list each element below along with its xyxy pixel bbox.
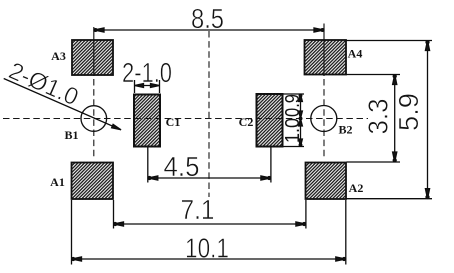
svg-text:C1: C1	[166, 115, 181, 129]
dimension 0.9/1.0 line	[299, 94, 303, 147]
dimension 7.1 extension lines	[114, 200, 306, 229]
pad C2	[257, 94, 283, 147]
svg-text:5.9: 5.9	[393, 93, 424, 131]
svg-text:A1: A1	[50, 175, 65, 189]
dimension 4.5 extension lines	[148, 147, 271, 183]
dimension 10.1 extension lines	[72, 200, 346, 265]
pad A1	[72, 163, 114, 200]
dimension 0.9/1.0 extension lines (right of C2)	[284, 94, 305, 147]
svg-text:3.3: 3.3	[363, 99, 394, 135]
leader line for 2-Ø1.0	[4, 79, 121, 130]
dimension 4.5 line	[148, 176, 271, 180]
svg-text:B2: B2	[338, 123, 352, 137]
svg-text:10.1: 10.1	[185, 233, 229, 264]
pad A2	[306, 163, 347, 200]
dimension 3.3 extension lines	[347, 75, 401, 163]
svg-text:0.9: 0.9	[282, 94, 304, 117]
svg-text:A2: A2	[349, 181, 364, 195]
dimension 2-1.0 line	[135, 84, 160, 88]
pad A3	[72, 40, 113, 75]
svg-text:C2: C2	[239, 115, 254, 129]
right column centerline (solid through pad A4)	[323, 24, 325, 77]
svg-text:4.5: 4.5	[164, 151, 200, 182]
dimension 5.9 extension lines	[347, 41, 433, 199]
dimension 7.1 line	[114, 222, 306, 226]
svg-text:1.0: 1.0	[282, 118, 304, 143]
dimension 5.9 line	[425, 41, 429, 199]
pad C1	[134, 95, 160, 147]
hole B1	[81, 106, 107, 132]
dimension 3.3 line	[393, 75, 397, 163]
left column centerline (vertical, dashed below pad A3)	[93, 79, 95, 157]
pad A4	[305, 40, 347, 75]
horizontal centerline	[3, 118, 368, 120]
svg-text:A3: A3	[51, 49, 66, 63]
dimension 2-1.0 extension lines	[135, 80, 160, 93]
svg-text:8.5: 8.5	[191, 3, 224, 34]
middle vertical centerline	[208, 31, 210, 197]
svg-text:B1: B1	[64, 128, 78, 142]
svg-text:A4: A4	[348, 47, 363, 61]
dimension 8.5 line	[94, 28, 324, 32]
hole B2	[311, 106, 337, 132]
svg-text:7.1: 7.1	[181, 194, 215, 225]
svg-text:2-1.0: 2-1.0	[122, 57, 172, 88]
dimension 10.1 line	[72, 257, 346, 261]
left column centerline (solid through pad A3)	[93, 27, 95, 76]
right column centerline (vertical, dashed below pad A4)	[323, 79, 325, 157]
